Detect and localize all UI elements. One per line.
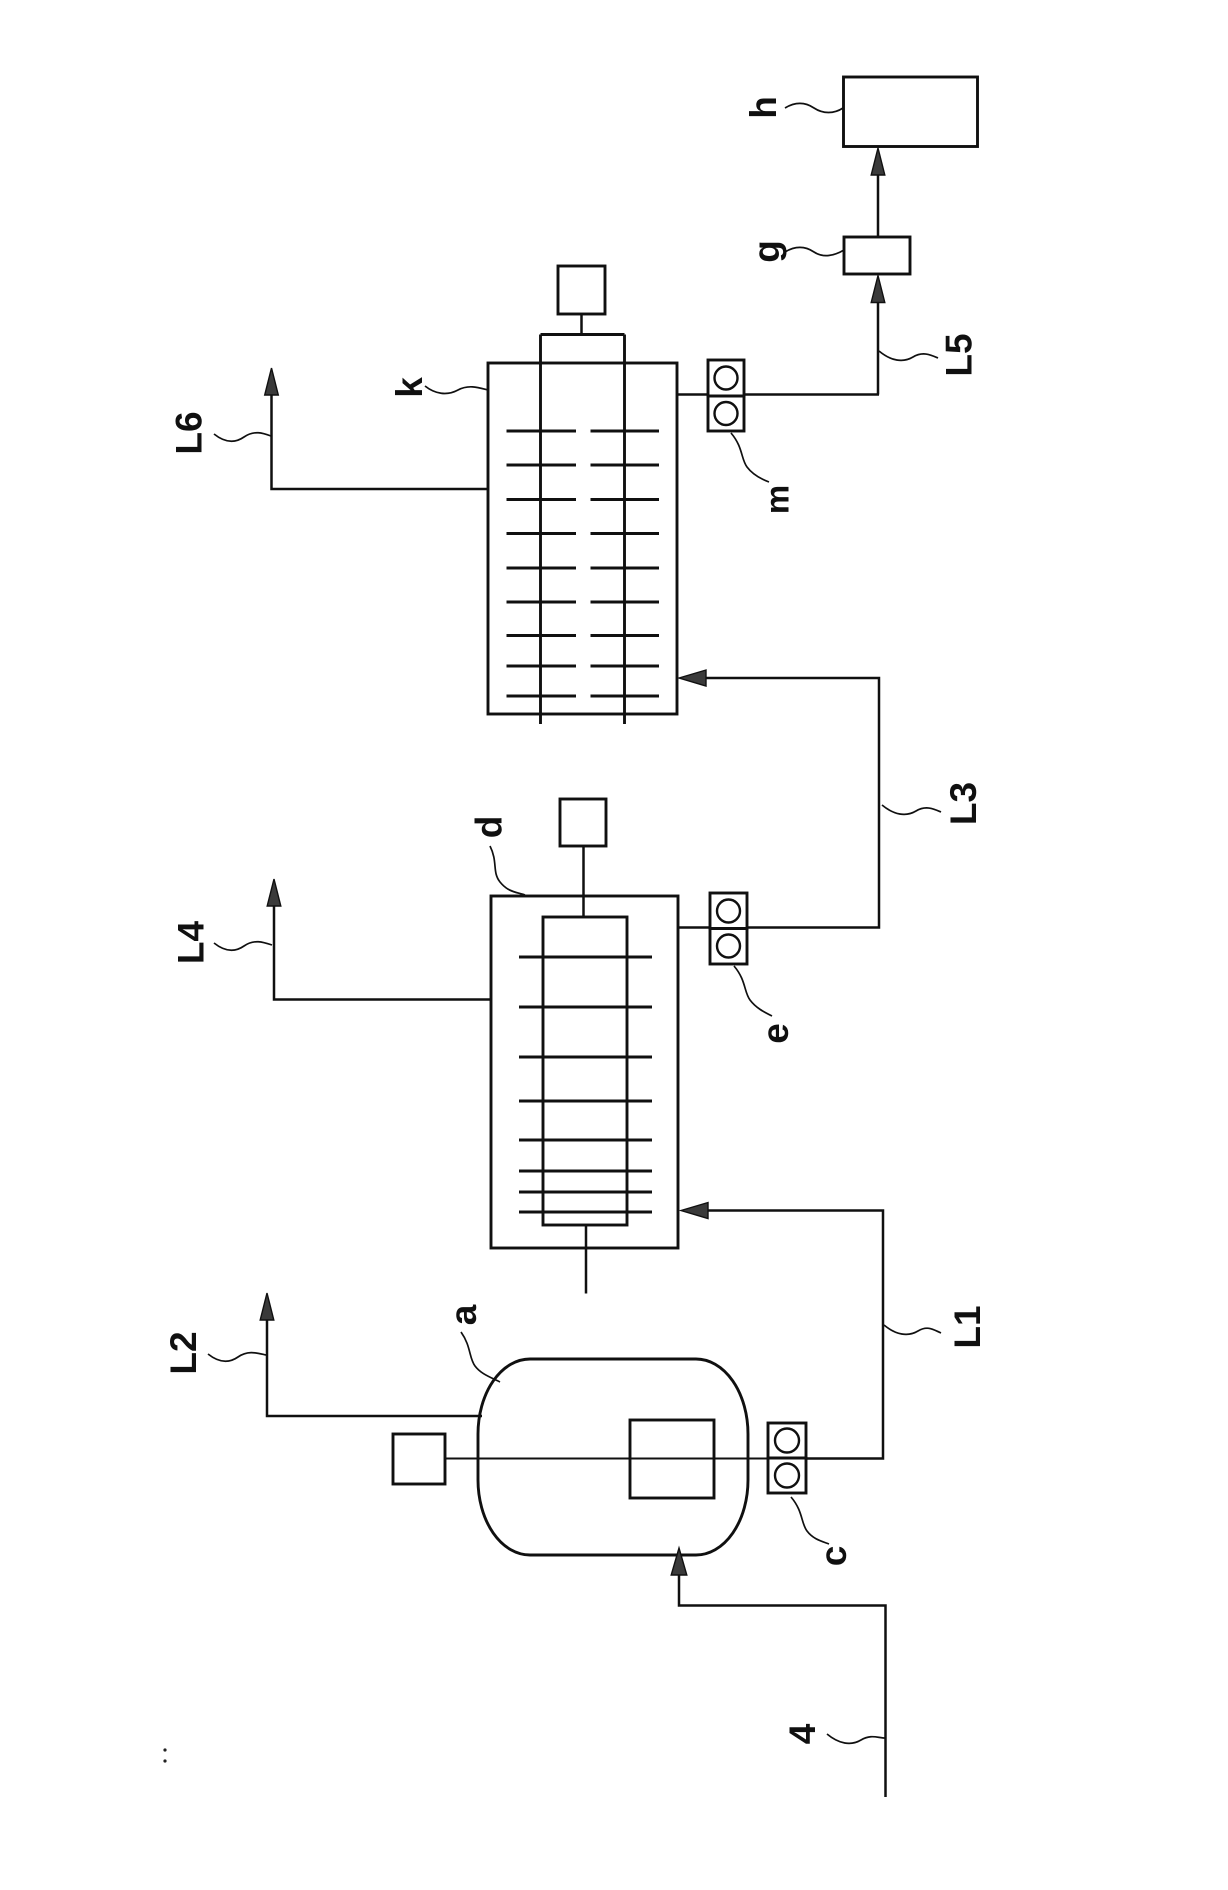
leader to L1	[884, 1325, 941, 1334]
svg-text:g: g	[746, 240, 787, 263]
leader to a	[461, 1332, 500, 1382]
wire feed 4	[679, 1570, 886, 1797]
leader to m	[731, 433, 769, 482]
leader to d	[490, 846, 525, 895]
vessel a inner rect	[630, 1420, 714, 1498]
leader to L3	[882, 805, 941, 814]
wire column d to pump e	[678, 926, 710, 929]
wire square d to inner rect	[582, 846, 585, 918]
svg-text:L2: L2	[163, 1331, 204, 1374]
pump e	[710, 893, 747, 929]
wire column k to pump m	[677, 393, 708, 396]
column k inner right wall	[623, 335, 626, 725]
svg-text:L5: L5	[939, 333, 980, 376]
leader to L5	[879, 351, 938, 360]
column k inner left wall	[539, 335, 542, 725]
arrowhead L6	[265, 368, 279, 395]
label L1	[947, 1305, 988, 1348]
label e	[755, 1023, 796, 1044]
svg-text:h: h	[743, 96, 784, 119]
leader to g	[785, 248, 844, 256]
arrowhead L1 into d	[681, 1203, 708, 1219]
leader to L4	[214, 942, 272, 951]
wire L3	[697, 678, 879, 928]
column d shell	[491, 896, 678, 1248]
column k cap top	[541, 333, 625, 336]
vessel a	[478, 1359, 748, 1555]
wire square to cap	[580, 314, 583, 336]
label c	[813, 1546, 854, 1567]
svg-text:L6: L6	[169, 411, 210, 454]
svg-text:4: 4	[782, 1723, 823, 1744]
wire L1	[699, 1211, 883, 1459]
label L4	[171, 920, 212, 964]
label h	[743, 96, 784, 119]
label k	[389, 377, 430, 398]
stray mark	[163, 1748, 166, 1751]
label L3	[943, 782, 984, 825]
leader to h	[785, 104, 843, 113]
label d	[469, 816, 510, 839]
column d inner rect	[543, 917, 627, 1225]
trays d	[519, 957, 652, 1212]
wire L5 vertical	[877, 288, 880, 395]
wire L4	[274, 893, 491, 1000]
wire pump m to L5 corner	[744, 393, 879, 396]
wire L2	[267, 1307, 482, 1416]
leader to L2	[208, 1353, 266, 1362]
arrowhead L2	[260, 1293, 274, 1320]
tank h	[844, 77, 978, 147]
svg-text:a: a	[443, 1304, 484, 1325]
arrowhead into g	[871, 276, 885, 303]
svg-text:L3: L3	[943, 782, 984, 825]
label a	[443, 1304, 484, 1325]
arrowhead into a	[671, 1548, 687, 1575]
label m	[759, 485, 796, 514]
label L6	[169, 411, 210, 454]
label g	[746, 240, 787, 263]
column d bottom stub	[585, 1225, 588, 1294]
leader to c	[791, 1497, 829, 1544]
svg-text:c: c	[813, 1546, 854, 1567]
label L2	[163, 1331, 204, 1374]
svg-text:d: d	[469, 816, 510, 839]
wire axis through a	[445, 1458, 768, 1460]
column k top square	[558, 266, 605, 314]
leader to 4	[827, 1734, 885, 1743]
label L5	[939, 333, 980, 376]
column k shell	[488, 363, 677, 714]
svg-text:k: k	[389, 377, 430, 398]
svg-text:L4: L4	[171, 920, 212, 964]
svg-text:e: e	[755, 1023, 796, 1044]
column d top square	[560, 799, 606, 846]
pump c	[768, 1423, 806, 1458]
arrowhead into h	[871, 148, 885, 175]
leader to k	[425, 386, 488, 393]
leader to e	[734, 966, 772, 1016]
pump m	[708, 360, 744, 396]
left square of a	[393, 1434, 445, 1484]
wire L6	[272, 382, 489, 489]
trays k	[507, 431, 660, 696]
arrowhead L3 into k	[679, 670, 706, 686]
wire g to h	[877, 160, 880, 237]
condenser g	[844, 237, 910, 274]
label 4	[782, 1723, 823, 1744]
leader to L6	[214, 433, 271, 442]
svg-text:m: m	[759, 485, 796, 514]
svg-text:L1: L1	[947, 1305, 988, 1348]
arrowhead L4	[267, 879, 281, 906]
